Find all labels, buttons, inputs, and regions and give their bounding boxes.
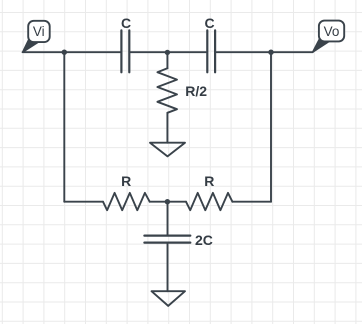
svg-text:R: R	[204, 173, 214, 189]
svg-text:C: C	[205, 15, 215, 31]
ground GND2	[152, 291, 186, 306]
wire top middle segment	[130, 51, 206, 53]
node C (right top junction)	[268, 50, 273, 55]
flag Vi	[23, 21, 50, 52]
svg-text:R/2: R/2	[185, 83, 207, 99]
node B (center top junction)	[165, 50, 170, 55]
svg-text:Vo: Vo	[324, 24, 340, 39]
capacitor C2 plates	[207, 30, 215, 72]
wire R/2 to ground	[166, 113, 168, 143]
wire bottom right	[232, 201, 271, 203]
flag Vo	[313, 21, 345, 53]
ground GND1	[150, 143, 185, 157]
wire left vertical	[63, 52, 65, 202]
node D (center bottom junction)	[165, 199, 170, 204]
svg-text:2C: 2C	[195, 232, 213, 248]
resistor R3 zigzag	[186, 193, 232, 210]
wire node to R/2	[166, 52, 168, 68]
svg-text:C: C	[121, 15, 131, 31]
svg-text:R: R	[121, 173, 131, 189]
capacitor C1 plates	[121, 30, 129, 72]
wire bottom left	[64, 201, 103, 203]
svg-text:Vi: Vi	[33, 24, 45, 39]
resistor R2 (R/2) zigzag	[157, 68, 177, 113]
resistor R1 zigzag	[103, 193, 150, 210]
wire node to 2C	[167, 202, 169, 235]
wire bottom middle	[150, 201, 186, 203]
wire 2C to ground	[167, 243, 169, 291]
wire top right segment	[216, 51, 312, 53]
node A (left top junction)	[62, 50, 67, 55]
wire top left segment	[23, 51, 121, 53]
wire right vertical	[270, 52, 272, 202]
capacitor C3 (2C) plates	[144, 236, 190, 243]
